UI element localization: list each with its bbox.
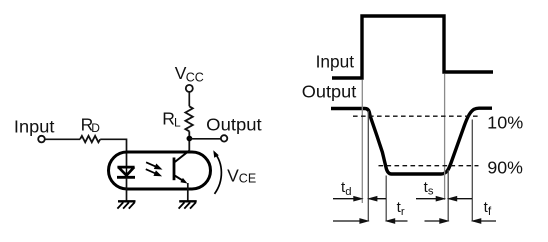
tr dimension arrows <box>333 219 408 223</box>
LED D1 <box>117 167 135 177</box>
wire VCC to RL <box>188 92 190 106</box>
input waveform <box>332 16 493 78</box>
wire emitter to ground <box>187 183 189 201</box>
svg-text:Input: Input <box>316 52 355 72</box>
VCE measurement arc <box>214 152 221 194</box>
light arrow 1 <box>146 162 161 169</box>
svg-text:10%: 10% <box>487 112 523 132</box>
wire RL to collector <box>188 131 190 151</box>
svg-text:d: d <box>345 186 351 198</box>
svg-text:Output: Output <box>302 81 357 101</box>
marker line output rise start <box>447 170 449 222</box>
marker line output fall start <box>367 111 369 222</box>
marker line output fall end <box>385 176 387 222</box>
wire input terminal to RD <box>45 138 80 140</box>
ts dimension arrows <box>416 197 472 201</box>
dashed 90% level line <box>379 165 479 167</box>
wire LED cathode to ground <box>126 177 128 201</box>
phototransistor Q1 <box>174 151 189 182</box>
svg-text:CC: CC <box>186 70 204 84</box>
output waveform <box>331 108 492 174</box>
light arrow 2 <box>146 169 161 176</box>
emitter arrowhead <box>180 178 187 184</box>
svg-text:D: D <box>91 121 100 135</box>
junction node <box>187 136 193 142</box>
wire node to output terminal <box>189 138 221 140</box>
wire RD to LED anode <box>100 139 126 167</box>
dashed 10% level line <box>353 115 479 117</box>
VCE arc arrowhead <box>213 150 219 157</box>
svg-text:s: s <box>428 185 434 197</box>
svg-text:R: R <box>162 109 175 129</box>
output terminal <box>221 135 227 141</box>
marker line output rise end <box>471 120 473 222</box>
svg-text:L: L <box>174 116 181 130</box>
svg-text:Input: Input <box>14 116 55 136</box>
ground (LED side) <box>117 201 135 208</box>
input terminal <box>38 136 45 143</box>
resistor RL <box>185 106 192 131</box>
td dimension arrows <box>333 197 386 201</box>
svg-text:V: V <box>227 165 239 185</box>
svg-text:r: r <box>401 206 405 218</box>
svg-text:CE: CE <box>239 172 256 186</box>
marker line input rise <box>361 80 363 203</box>
resistor RD <box>80 136 100 142</box>
tf dimension arrows <box>425 219 497 223</box>
svg-text:Output: Output <box>206 114 262 134</box>
VCC terminal <box>186 85 193 92</box>
ground (emitter side) <box>179 201 197 208</box>
optocoupler package oval <box>109 152 211 189</box>
svg-text:90%: 90% <box>487 157 523 177</box>
marker line input fall <box>444 74 446 200</box>
